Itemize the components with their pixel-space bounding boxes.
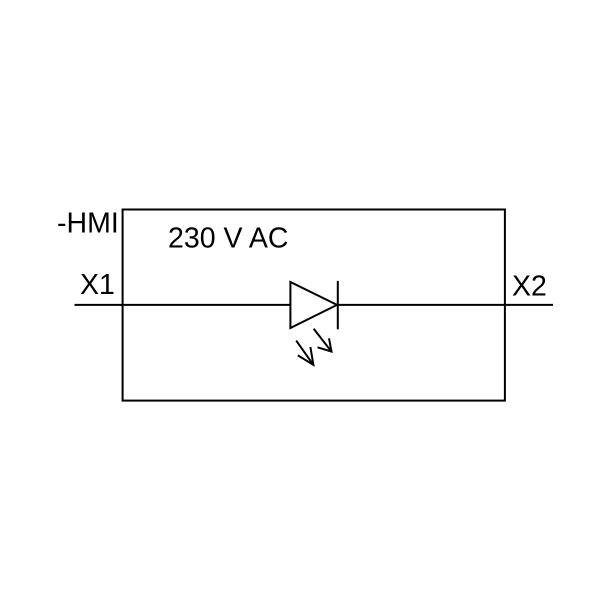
LED cathode bar xyxy=(337,281,339,329)
svg-text:X2: X2 xyxy=(512,271,547,303)
svg-text:230 V AC: 230 V AC xyxy=(168,223,288,255)
terminal label X1 xyxy=(80,269,115,301)
value label 230 V AC xyxy=(168,223,288,255)
LED light emission arrow 2 (lower left) xyxy=(296,341,313,365)
svg-text:X1: X1 xyxy=(80,269,115,301)
wire right lead to terminal X2 xyxy=(338,304,553,306)
component outline box of indicator lamp -HMI xyxy=(123,210,505,401)
wire left lead from terminal X1 xyxy=(75,304,291,306)
LED diode triangle (anode) xyxy=(290,282,337,328)
LED light emission arrow 1 (upper right) xyxy=(314,329,332,352)
svg-text:-HMI: -HMI xyxy=(57,208,119,240)
terminal label X2 xyxy=(512,271,547,303)
reference designator -HMI xyxy=(57,208,119,240)
